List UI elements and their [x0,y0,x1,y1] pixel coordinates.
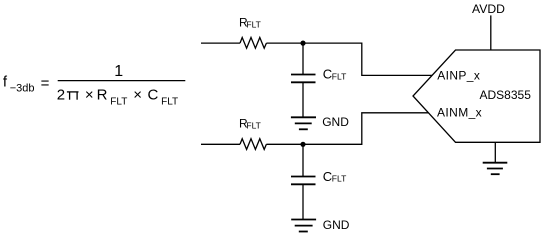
svg-text:C: C [323,67,332,82]
svg-text:AVDD: AVDD [472,2,505,16]
svg-text:AINM_x: AINM_x [437,105,482,119]
svg-text:FLT: FLT [246,121,260,131]
svg-text:=: = [41,75,50,92]
svg-text:−3db: −3db [10,83,35,95]
svg-text:R: R [97,86,108,103]
svg-text:1: 1 [114,63,123,80]
svg-text:AINP_x: AINP_x [437,69,480,83]
svg-text:×: × [133,86,142,103]
svg-text:FLT: FLT [332,174,346,184]
svg-text:GND: GND [323,218,350,232]
svg-text:ADS8355: ADS8355 [480,88,532,102]
svg-text:×: × [85,86,94,103]
svg-text:C: C [148,86,159,103]
svg-text:FLT: FLT [332,71,346,81]
svg-text:f: f [3,73,8,90]
svg-text:2: 2 [57,86,65,103]
svg-text:GND: GND [322,115,349,129]
svg-text:FLT: FLT [246,19,260,29]
svg-text:FLT: FLT [110,97,127,108]
svg-text:FLT: FLT [161,97,178,108]
svg-text:C: C [323,169,332,184]
